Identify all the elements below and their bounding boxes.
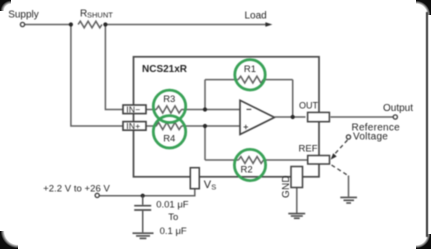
terminal Supply [20, 22, 24, 26]
svg-text:S: S [211, 182, 216, 191]
wire R1 feedback row [205, 80, 293, 117]
resistor R2 zigzag [239, 157, 264, 164]
label RSHUNT [80, 9, 113, 20]
resistor circle R2 [234, 149, 265, 180]
svg-text:0.1 μF: 0.1 μF [160, 226, 187, 237]
resistor R1 zigzag [238, 76, 263, 83]
svg-text:Voltage: Voltage [353, 132, 388, 143]
wire VS pin to supply rail [100, 189, 195, 196]
terminal +2.2V [95, 193, 99, 197]
wire IN+ to R4 and R4 to op-amp [146, 125, 240, 127]
svg-text:0.01 μF: 0.01 μF [156, 200, 189, 211]
svg-text:OUT: OUT [299, 100, 319, 110]
svg-text:Load: Load [245, 10, 267, 21]
rounded corner mask top-left [0, 0, 11, 11]
node R4 op-amp plus junction [203, 124, 207, 128]
wire OUT pin to Output terminal [331, 116, 394, 118]
wire ref ground vertical [348, 176, 350, 197]
label VS [204, 179, 216, 191]
wire IN- to R3 and R3 to op-amp [146, 109, 240, 111]
window right edge line [426, 12, 428, 237]
ground under capacitor [133, 233, 154, 238]
wire right junction down to IN- [105, 25, 123, 110]
svg-text:IN+: IN+ [126, 121, 140, 131]
wire shunt to load arrow [105, 24, 266, 26]
pin box IN- [123, 104, 146, 114]
resistor circle R3 [153, 90, 185, 122]
node junction right of shunt [103, 22, 107, 26]
capacitor C1 [134, 196, 151, 233]
op-amp U1 [240, 100, 275, 134]
resistor R4 zigzag [156, 122, 181, 129]
pin box GND [291, 167, 303, 188]
node junction left of shunt [69, 22, 73, 26]
node capacitor junction [141, 194, 145, 198]
svg-text:SHUNT: SHUNT [87, 10, 113, 19]
rounded corner mask bottom-right [416, 234, 431, 249]
svg-text:R2: R2 [241, 164, 253, 175]
pin box OUT [308, 112, 330, 121]
resistor RSHUNT [78, 21, 102, 28]
svg-text:NCS21xR: NCS21xR [142, 64, 188, 75]
terminal Reference Voltage [346, 135, 350, 139]
svg-text:Output: Output [383, 103, 413, 114]
node R3 op-amp minus junction [203, 107, 207, 111]
rounded corner mask bottom-left [0, 231, 18, 249]
node output junction [291, 115, 295, 119]
resistor R3 zigzag [156, 106, 181, 113]
wire op-amp output to OUT pin [275, 116, 306, 118]
svg-text:Supply: Supply [8, 10, 39, 21]
resistor circle R1 [235, 60, 265, 90]
svg-text:REF: REF [299, 144, 318, 155]
dashed wire REF to reference voltage terminal [334, 140, 348, 155]
rounded corner mask top-right [416, 0, 431, 15]
svg-text:R1: R1 [244, 64, 256, 75]
svg-text:To: To [168, 212, 178, 223]
pin box REF [308, 156, 330, 165]
terminal Output [393, 115, 397, 119]
arrowhead into REF pin [331, 153, 337, 159]
dashed wire REF to ground branch [332, 165, 349, 176]
svg-text:IN−: IN− [126, 104, 140, 114]
ground under GND pin [288, 214, 305, 219]
pin box VS [190, 168, 199, 189]
label Reference Voltage [352, 123, 401, 143]
wire R4 node down to R2 row [204, 126, 206, 160]
svg-text:+2.2 V to +26 V: +2.2 V to +26 V [43, 183, 110, 194]
IC box NCS21xR [134, 57, 320, 177]
wire supply to shunt [25, 24, 71, 26]
svg-text:R4: R4 [163, 133, 175, 144]
svg-text:GND: GND [281, 175, 292, 198]
load arrowhead [265, 22, 272, 27]
wire GND pin to ground [296, 188, 298, 214]
resistor circle R4 [153, 116, 185, 148]
wire R2 row to REF [205, 159, 308, 161]
wire R3 node up to R1 row [204, 80, 206, 110]
wire left junction down to IN+ [71, 25, 123, 127]
ground under REF branch [340, 197, 357, 203]
pin box IN+ [123, 121, 146, 131]
svg-text:R3: R3 [163, 94, 175, 105]
